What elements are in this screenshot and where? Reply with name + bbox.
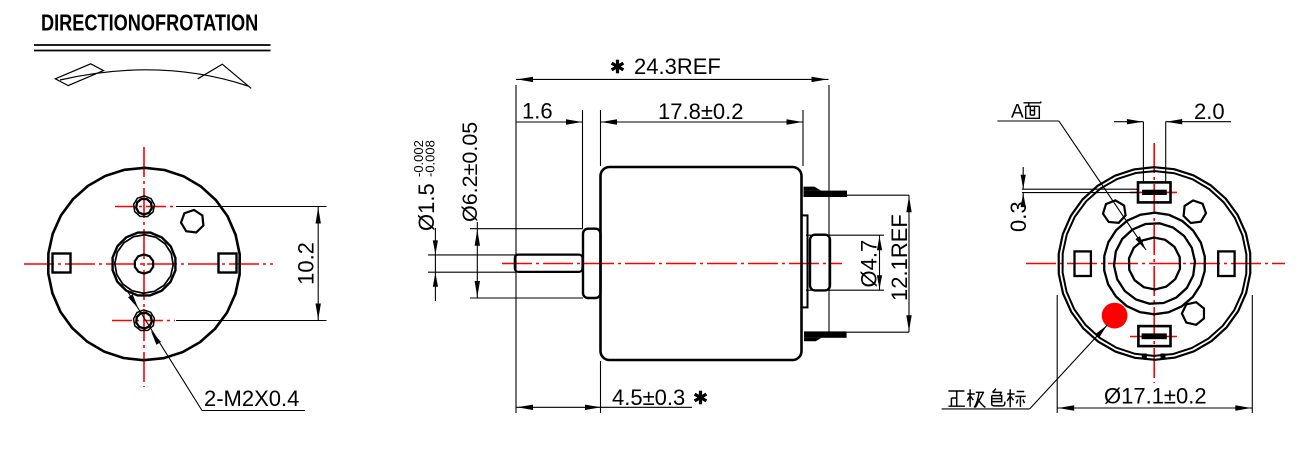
svg-text:DIRECTIONOFROTATION: DIRECTIONOFROTATION bbox=[41, 11, 258, 37]
svg-text:A: A bbox=[1011, 101, 1024, 122]
svg-text:-0.008: -0.008 bbox=[423, 140, 438, 177]
svg-text:24.3REF: 24.3REF bbox=[634, 54, 721, 79]
svg-text:10.2: 10.2 bbox=[294, 242, 319, 285]
svg-text:17.8±0.2: 17.8±0.2 bbox=[658, 99, 743, 124]
svg-text:0.3: 0.3 bbox=[1006, 201, 1031, 232]
svg-text:Ø6.2±0.05: Ø6.2±0.05 bbox=[458, 122, 482, 222]
svg-text:Ø4.7: Ø4.7 bbox=[857, 240, 882, 288]
svg-text:12.1REF: 12.1REF bbox=[887, 214, 912, 301]
svg-text:Ø17.1±0.2: Ø17.1±0.2 bbox=[1104, 384, 1207, 409]
svg-text:2-M2X0.4: 2-M2X0.4 bbox=[204, 386, 299, 411]
svg-text:2.0: 2.0 bbox=[1194, 99, 1225, 124]
svg-text:4.5±0.3: 4.5±0.3 bbox=[612, 385, 685, 410]
svg-text:Ø1.5: Ø1.5 bbox=[414, 183, 439, 231]
svg-text:1.6: 1.6 bbox=[522, 99, 553, 124]
